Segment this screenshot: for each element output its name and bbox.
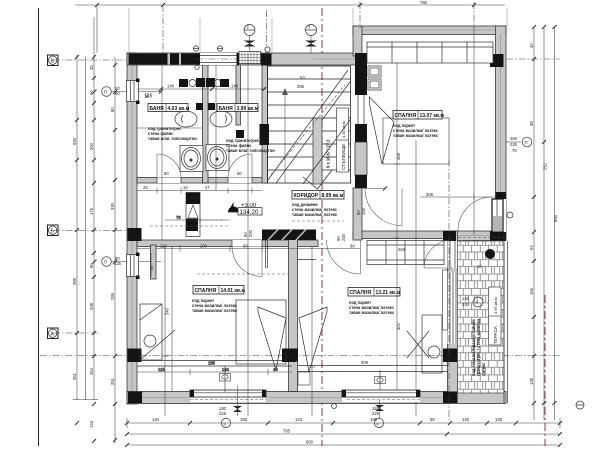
small circle below bottom wall xyxy=(332,404,337,409)
socket symbol room 13.21 xyxy=(375,370,386,390)
svg-text:146: 146 xyxy=(167,84,175,89)
label bedroom 13.21 xyxy=(348,288,400,297)
bottom window mark circle right xyxy=(374,418,383,427)
dashed diagonal stairs xyxy=(271,85,345,175)
bottom dimension chain 2 xyxy=(125,432,562,436)
svg-text:260: 260 xyxy=(510,136,518,141)
bottom window mark circle left xyxy=(221,418,230,427)
dim horizontal bedroom bottom xyxy=(208,361,216,366)
wall stub below stair wall xyxy=(353,188,362,240)
extra left numbers xyxy=(110,107,115,385)
svg-text:140: 140 xyxy=(152,417,160,422)
bath2 finish texts xyxy=(226,138,275,153)
svg-text:75: 75 xyxy=(176,215,181,220)
svg-text:225: 225 xyxy=(372,411,380,416)
bottom small symbol right corner xyxy=(576,401,584,409)
svg-text:225: 225 xyxy=(219,411,227,416)
door bath2 opening xyxy=(228,178,252,184)
bedroom 14.01 finish texts xyxy=(192,298,238,313)
svg-text:308: 308 xyxy=(426,192,434,197)
svg-text:123: 123 xyxy=(295,417,303,422)
drain circle outside right wall xyxy=(507,212,513,218)
bottom window size text right xyxy=(372,406,380,416)
dashed line room 14.01 xyxy=(197,273,288,275)
svg-text:25: 25 xyxy=(143,185,148,190)
terrace railing double line xyxy=(504,235,508,403)
svg-text:КОРИДОР: КОРИДОР xyxy=(294,193,319,199)
tiny window number 60 left xyxy=(149,253,154,277)
bottom window size text left xyxy=(219,406,227,416)
svg-text:860: 860 xyxy=(553,214,558,222)
wardrobe kite left xyxy=(258,307,286,370)
extra margin ticks left xyxy=(75,118,117,406)
terrace drain dot xyxy=(485,249,495,259)
window mark P1 circle left top xyxy=(93,86,164,96)
red section axis line vertical xyxy=(321,8,323,446)
section bowtie bottom xyxy=(375,400,384,418)
svg-text:120: 120 xyxy=(462,417,470,422)
door bath1 opening xyxy=(157,178,181,184)
bath1 sink xyxy=(175,111,197,127)
top axis circle 2 xyxy=(306,25,317,36)
witness lines top margin xyxy=(129,8,507,53)
rotated door size 90/200 right xyxy=(336,233,346,241)
bath small black squares xyxy=(196,103,244,138)
svg-text:200: 200 xyxy=(361,207,366,215)
dim numbers 148 xyxy=(167,84,239,89)
svg-text:785: 785 xyxy=(283,429,291,434)
svg-text:64: 64 xyxy=(529,245,534,250)
svg-text:130: 130 xyxy=(495,417,503,422)
wall corridor/bedroom 13.21 xyxy=(353,231,448,239)
vertical dashdot top right 2 xyxy=(473,2,475,28)
top dimension line xyxy=(75,3,505,7)
label corridor xyxy=(292,191,344,200)
left dimension chain 2 xyxy=(82,17,99,443)
svg-text:4.65 кв.м: 4.65 кв.м xyxy=(493,297,498,314)
column bottom wall right xyxy=(443,392,458,404)
svg-text:110: 110 xyxy=(160,244,167,249)
vent block hatched xyxy=(239,52,261,64)
dim horizontal bedroom lower chain xyxy=(137,367,292,375)
window bottom wall bedroom 13.21 xyxy=(342,390,420,402)
svg-text:латекс: латекс xyxy=(481,362,486,376)
svg-text:395: 395 xyxy=(72,277,77,285)
svg-text:3.99 кв.м: 3.99 кв.м xyxy=(237,106,259,112)
svg-text:П: П xyxy=(104,90,107,95)
socket symbol bottom-left room xyxy=(220,366,231,392)
tiny door numbers xyxy=(143,171,242,190)
vertical dashdot stair axis xyxy=(265,10,270,52)
dim vertical room 14.01 a xyxy=(162,246,168,416)
room 13.07 south dim stub xyxy=(362,187,387,191)
svg-text:140: 140 xyxy=(89,420,94,428)
door arc balcony door xyxy=(458,197,492,231)
door terrace arc xyxy=(424,240,452,268)
axis square B top-left xyxy=(48,55,59,66)
bed bedroom 13.21 xyxy=(407,315,442,373)
svg-text:50: 50 xyxy=(237,171,242,176)
svg-text:115: 115 xyxy=(158,367,165,372)
bottom dimension chain 3 xyxy=(125,443,562,447)
bedroom 13.07 finish texts xyxy=(393,123,439,138)
closet band bedroom 13.07 xyxy=(367,42,493,63)
left wall xyxy=(127,53,137,404)
svg-text:9 x 16.67 / 27.2: 9 x 16.67 / 27.2 xyxy=(326,139,331,168)
dashed hidden line corridor 2 xyxy=(200,219,225,221)
svg-text:186: 186 xyxy=(240,417,248,422)
svg-text:80: 80 xyxy=(110,107,115,112)
svg-text:308: 308 xyxy=(361,360,369,365)
svg-text:10: 10 xyxy=(183,185,188,190)
bedroom 14.01 bay sill wall xyxy=(137,361,292,367)
svg-text:40: 40 xyxy=(529,43,534,48)
terrace top dashed band xyxy=(458,237,504,239)
bath2 top fixtures xyxy=(206,78,229,87)
svg-text:СПАЛНЯ: СПАЛНЯ xyxy=(195,288,217,294)
column bottom-left corner xyxy=(128,392,142,404)
right wall upper xyxy=(496,26,507,232)
corridor shaft cabinet xyxy=(186,193,200,237)
dim vertical stair left xyxy=(247,55,249,416)
dim vertical mid right room xyxy=(415,140,417,416)
wardrobe kite right xyxy=(299,307,327,372)
svg-text:100: 100 xyxy=(200,244,208,249)
terrace label rotated xyxy=(489,287,502,345)
svg-text:95: 95 xyxy=(430,417,435,422)
bathroom south wall xyxy=(137,178,267,184)
svg-text:368: 368 xyxy=(396,152,401,160)
top section mark 1 (bowtie) xyxy=(244,36,256,56)
vent circle above top wall 2 xyxy=(217,46,223,51)
niche wall right of door xyxy=(266,240,268,268)
rotated door size 90/200 left xyxy=(243,229,253,237)
column top-left 1 xyxy=(129,54,168,65)
terrace top wall xyxy=(444,231,506,241)
svg-text:60: 60 xyxy=(350,244,355,249)
column top-left 2 xyxy=(170,54,179,65)
right wall centerline xyxy=(506,58,560,60)
left chain 1 numbers xyxy=(72,137,77,380)
svg-text:140: 140 xyxy=(462,296,470,301)
top wall left section xyxy=(127,53,361,65)
svg-text:таван мазилка/ латекс: таван мазилка/ латекс xyxy=(349,310,395,315)
axis line B xyxy=(53,59,130,61)
label bath1 xyxy=(148,104,190,113)
axis line A (centerline across page) xyxy=(53,332,100,334)
right chain 1 numbers xyxy=(529,43,534,385)
stair dim texts xyxy=(297,75,305,89)
level mark +3.00 xyxy=(228,202,262,216)
svg-text:90: 90 xyxy=(243,244,248,249)
bath2 sink xyxy=(210,111,232,127)
door bedroom 14.01 opening xyxy=(232,240,262,247)
svg-text:90: 90 xyxy=(89,263,94,268)
top wall right section xyxy=(353,26,506,35)
svg-text:П: П xyxy=(104,260,107,265)
terrace brick hatch xyxy=(458,241,505,393)
corridor dim numbers xyxy=(160,244,355,249)
svg-text:155: 155 xyxy=(208,361,216,366)
column top mid xyxy=(261,54,272,66)
column left wall axis A xyxy=(128,349,142,363)
dim vertical through bath2 xyxy=(215,65,217,190)
svg-text:таван мазилка/ латекс: таван мазилка/ латекс xyxy=(192,308,238,313)
door bedroom 14.01 arc xyxy=(232,247,262,277)
svg-text:286: 286 xyxy=(110,292,115,300)
bottom chain 1 numbers xyxy=(152,417,503,422)
bathroom divider wall xyxy=(203,65,209,183)
bath1 toilet xyxy=(180,146,203,172)
bedroom 13.21 finish texts xyxy=(349,300,395,315)
door bedroom 13.07 leaf and arc xyxy=(365,189,402,226)
window mark P right wall xyxy=(506,136,532,147)
window left wall top 50/90 xyxy=(127,79,140,105)
stairwell west wall xyxy=(262,65,268,183)
svg-text:ТЕРАСА: ТЕРАСА xyxy=(493,325,498,344)
axis A centerline main xyxy=(40,355,560,357)
beam band above corridor wall (hatched) xyxy=(262,230,316,241)
svg-text:146: 146 xyxy=(231,84,239,89)
svg-text:13.21 кв.м: 13.21 кв.м xyxy=(376,290,401,296)
column top-right corner xyxy=(490,54,504,67)
svg-text:294: 294 xyxy=(398,247,406,252)
vertical dashdot thru left window xyxy=(162,5,164,57)
column divider wall block xyxy=(287,349,298,362)
terrace finish text rotated xyxy=(471,318,486,376)
stair east wall black lower xyxy=(355,175,367,188)
corridor south wall (between corridor and bedroom 14.01) xyxy=(137,240,318,247)
svg-text:225: 225 xyxy=(510,142,518,147)
corridor finish texts xyxy=(292,202,338,217)
axis line V xyxy=(53,230,132,232)
svg-text:252: 252 xyxy=(543,162,548,170)
svg-text:302: 302 xyxy=(396,322,401,330)
label bedroom 14.01 xyxy=(193,286,245,295)
bathroom 2 partition xyxy=(236,65,241,125)
column left wall axis V xyxy=(128,228,142,241)
bath1 counter line xyxy=(137,127,203,129)
window top wall (between baths) xyxy=(196,53,240,65)
dim vertical through bath1 xyxy=(161,65,163,240)
stair walk line xyxy=(282,88,288,183)
vertical dashdot top right 1 xyxy=(359,2,361,28)
section bowtie below left window xyxy=(233,386,242,416)
svg-text:208: 208 xyxy=(89,302,94,310)
bottom dimension chain 1 xyxy=(125,418,562,428)
hidden dashed line below window xyxy=(347,399,420,401)
column right wall above door xyxy=(496,192,507,200)
svg-text:90: 90 xyxy=(144,93,149,98)
bath2 toilet xyxy=(206,145,229,171)
svg-text:п: п xyxy=(476,300,478,305)
shelf line room 13.21 niche xyxy=(297,259,316,261)
dim horizontal right mid xyxy=(420,194,497,200)
svg-text:70: 70 xyxy=(512,148,517,153)
svg-text:184: 184 xyxy=(222,367,230,372)
appliance squares near stair wall xyxy=(368,66,381,90)
svg-text:330: 330 xyxy=(110,202,115,210)
label bedroom 13.07 xyxy=(393,111,444,120)
bath1 finish texts xyxy=(148,126,197,141)
svg-text:166: 166 xyxy=(529,287,534,295)
label bath2 xyxy=(217,104,259,113)
svg-text:50: 50 xyxy=(164,171,169,176)
dim vertical between rooms xyxy=(309,246,315,416)
door bath2 arc xyxy=(228,154,252,178)
bedroom divider wall vertical xyxy=(289,238,298,392)
svg-text:300: 300 xyxy=(89,142,94,150)
svg-text:40: 40 xyxy=(273,367,278,372)
svg-text:14.01 кв.м: 14.01 кв.м xyxy=(221,288,246,294)
right dimension chain 2 xyxy=(542,25,546,420)
window bottom wall bedroom 14.01 xyxy=(190,390,266,402)
dim tick texts left wall interior xyxy=(144,93,149,98)
rotated door size 90/200 stair xyxy=(356,207,366,215)
left chain 2 numbers xyxy=(89,65,94,428)
step wall joining top sections xyxy=(353,26,362,56)
left page border line xyxy=(38,8,40,446)
nightstand room 13.21 xyxy=(298,372,310,385)
bottom wall xyxy=(127,392,506,404)
axis square A left bottom xyxy=(48,328,59,339)
door bath1 arc xyxy=(157,154,181,178)
right dimension chain 1 xyxy=(532,25,536,420)
tiny vent circle on wall xyxy=(195,65,199,69)
stair landing dark block xyxy=(260,124,270,145)
column center axis A xyxy=(282,349,296,363)
stair break diagonal xyxy=(268,70,350,183)
dim line 75 corridor xyxy=(165,215,230,223)
svg-text:СПАЛНЯ: СПАЛНЯ xyxy=(395,113,417,119)
dashed line under corridor label xyxy=(292,220,344,222)
balcony door right wall xyxy=(492,199,506,232)
vertical line top margin left xyxy=(96,5,98,53)
dim vertical room 14.01 b xyxy=(171,246,173,392)
svg-text:53: 53 xyxy=(300,75,305,80)
dashed hidden line corridor xyxy=(150,225,230,227)
svg-text:таван мазилка/ латекс: таван мазилка/ латекс xyxy=(292,212,338,217)
svg-text:П: П xyxy=(525,140,528,145)
left dimension chain 3 xyxy=(113,57,117,443)
terrace window in left wall xyxy=(448,272,458,344)
column terrace wall top xyxy=(443,231,456,241)
top section mark 2 (bowtie) xyxy=(305,36,317,56)
door opening stair wall xyxy=(355,95,367,124)
svg-text:10: 10 xyxy=(477,264,482,269)
svg-text:60: 60 xyxy=(149,265,154,270)
dim chain below bath wall xyxy=(137,188,262,194)
column terrace wall right xyxy=(490,231,506,241)
svg-text:200: 200 xyxy=(341,233,346,241)
right dimension chain 3 xyxy=(553,25,557,420)
svg-text:таван влаг. гипсокартон: таван влаг. гипсокартон xyxy=(226,148,275,153)
terrace door leaf rect xyxy=(443,270,448,330)
window left wall bottom 50/225 xyxy=(127,253,140,280)
stair east wall hollow segment xyxy=(355,142,367,175)
svg-text:200: 200 xyxy=(248,229,253,237)
svg-text:СПАЛНЯ: СПАЛНЯ xyxy=(350,290,372,296)
stair second diagonal xyxy=(303,120,350,184)
terrace left wall xyxy=(448,231,458,393)
svg-text:785: 785 xyxy=(420,0,428,5)
stair center railing strip xyxy=(303,118,332,189)
svg-text:таван мазилка/ латекс: таван мазилка/ латекс xyxy=(393,133,439,138)
terrace door opening xyxy=(448,241,458,268)
bedroom 13.21 bay sill wall xyxy=(297,366,448,372)
svg-text:135: 135 xyxy=(529,377,534,385)
terrace door mark circle xyxy=(462,296,483,307)
bed bedroom 13.07 xyxy=(383,118,449,164)
svg-text:251: 251 xyxy=(110,377,115,385)
svg-text:900: 900 xyxy=(306,440,314,445)
desk bedroom 14.01 xyxy=(140,304,175,360)
red section axis line right xyxy=(544,295,546,446)
svg-text:38: 38 xyxy=(529,121,534,126)
svg-text:264: 264 xyxy=(89,367,94,375)
svg-text:296: 296 xyxy=(297,84,305,89)
window mark P2 circle left bottom xyxy=(93,256,162,266)
stair east wall black upper xyxy=(355,53,367,95)
bath1 top fixtures xyxy=(179,78,205,87)
svg-text:таван влаг. гипсокартон: таван влаг. гипсокартон xyxy=(148,136,197,141)
svg-text:175: 175 xyxy=(89,207,94,215)
svg-text:630: 630 xyxy=(72,137,77,145)
svg-text:4.30 кв.м: 4.30 кв.м xyxy=(341,121,346,138)
svg-text:4.03 кв.м: 4.03 кв.м xyxy=(168,106,190,112)
dim vertical top-right room xyxy=(473,26,475,235)
closet band bedroom 13.21 xyxy=(367,241,444,265)
door bedroom 13.21 leaf and arc xyxy=(327,240,361,274)
axis square V left middle xyxy=(48,225,59,236)
column top-left 3 xyxy=(181,54,200,65)
stairwell label box rotated xyxy=(337,108,349,172)
svg-text:134.20: 134.20 xyxy=(240,209,259,216)
left dimension chain 1 xyxy=(73,55,81,425)
wardrobe bedroom 14.01 body xyxy=(236,300,286,364)
door leaf kite bedroom 13.07 xyxy=(370,97,395,164)
staircase treads xyxy=(268,66,351,183)
dim chain bathrooms horizontal xyxy=(137,87,266,91)
svg-text:340: 340 xyxy=(165,307,170,315)
stair east wall black mid xyxy=(355,124,367,142)
svg-text:351: 351 xyxy=(72,372,77,380)
dim vertical room 13.21 xyxy=(394,63,400,390)
wall cavity lines xyxy=(132,30,501,398)
column terrace wall axis A xyxy=(443,349,458,363)
dim horizontal corridor xyxy=(137,245,360,252)
svg-text:8.99 кв.м: 8.99 кв.м xyxy=(322,193,344,199)
svg-text:13.07 кв.м: 13.07 кв.м xyxy=(420,113,445,119)
svg-text:СТЪЛБИЩЕ: СТЪЛБИЩЕ xyxy=(341,144,346,170)
svg-text:47: 47 xyxy=(205,185,210,190)
vent circle above top wall 1 xyxy=(193,46,199,51)
vertical dashdot terrace xyxy=(448,160,450,420)
svg-text:35: 35 xyxy=(89,65,94,70)
wall stub below corridor wall xyxy=(151,245,157,279)
svg-text:БАНЯ: БАНЯ xyxy=(219,106,234,112)
top axis circle 1 xyxy=(244,25,255,36)
svg-text:230: 230 xyxy=(462,302,470,307)
